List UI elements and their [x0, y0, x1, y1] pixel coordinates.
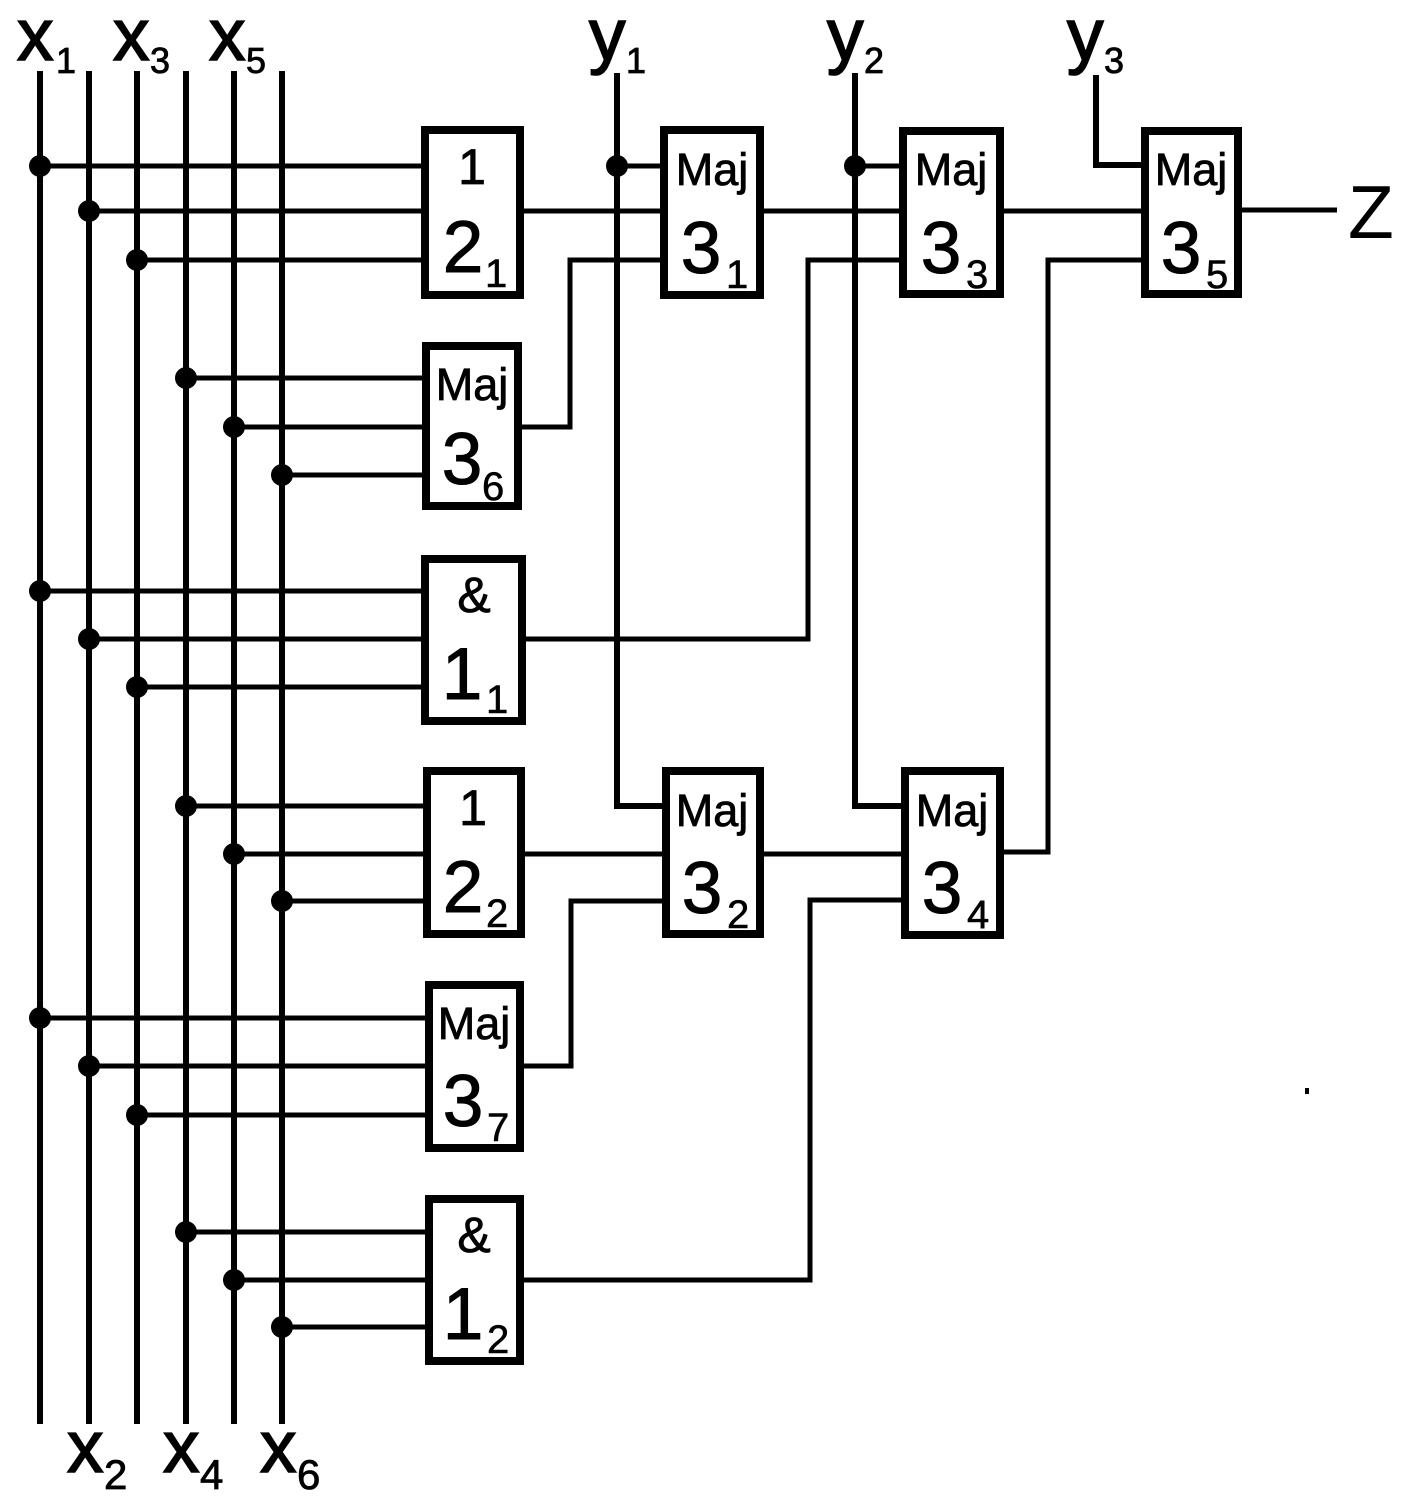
svg-text:3: 3	[443, 1061, 484, 1142]
net x3 vertical line	[134, 71, 140, 1424]
gate 3_4 label 3 with subscript 4	[922, 848, 990, 937]
svg-text:1: 1	[486, 678, 508, 722]
wire x5 to gate 3_6 input 2	[234, 425, 426, 430]
net y1 wire to gate 3_2 input 1	[617, 73, 664, 806]
net x1 vertical line	[37, 71, 43, 1424]
junction dot y1 / 3_1	[606, 155, 628, 177]
svg-text:1: 1	[56, 40, 76, 81]
net x5 vertical line	[231, 71, 237, 1424]
wire y2 to gate 3_3 input 1	[855, 164, 903, 169]
wire gate 3_1 output to gate 3_3 input 2	[764, 209, 903, 214]
svg-text:x: x	[17, 0, 54, 76]
svg-text:y: y	[1067, 0, 1104, 76]
svg-text:2: 2	[104, 1451, 127, 1498]
junction dot x1 / 2_1	[29, 155, 51, 177]
svg-text:3: 3	[682, 848, 723, 929]
wire y1 to gate 3_1 input 1	[617, 164, 664, 169]
gate 3_5 box	[1145, 131, 1238, 294]
junction dot x4 / 2_2	[175, 795, 197, 817]
svg-text:2: 2	[487, 1318, 509, 1362]
junction dot x2 / 1_1	[78, 628, 100, 650]
svg-text:x: x	[67, 1407, 104, 1488]
junction dot x5 / 3_6	[223, 416, 245, 438]
svg-text:Maj: Maj	[676, 144, 749, 195]
svg-text:Maj: Maj	[916, 785, 989, 836]
svg-text:5: 5	[246, 40, 266, 81]
junction dot x1 / 3_7	[29, 1007, 51, 1029]
svg-text:4: 4	[967, 893, 989, 937]
wire gate 2_2 output to gate 3_2 input 2	[525, 852, 664, 857]
wire x5 to gate 2_2 input 2	[234, 852, 427, 857]
wire gate 3_6 output to gate 3_1 input 3	[522, 260, 664, 427]
junction dot x6 / 3_6	[271, 464, 293, 486]
wire x1 to gate 3_7 input 1	[40, 1016, 429, 1021]
gate 3_7 box	[429, 985, 520, 1148]
svg-text:x: x	[209, 0, 246, 76]
svg-text:Maj: Maj	[436, 359, 509, 410]
svg-text:3: 3	[1161, 208, 1202, 289]
svg-text:Maj: Maj	[676, 785, 749, 836]
gate 3_3 box	[903, 131, 1000, 294]
gate 1_2 box	[429, 1199, 520, 1361]
gate 3_3 label 3 with subscript 3	[921, 208, 989, 297]
gate 3_2 box	[666, 771, 760, 934]
svg-text:7: 7	[487, 1106, 509, 1150]
svg-text:3: 3	[966, 253, 988, 297]
gate 2_1 box	[425, 130, 520, 295]
junction dot x2 / 2_1	[78, 200, 100, 222]
svg-text:3: 3	[442, 419, 483, 500]
svg-text:6: 6	[297, 1451, 320, 1498]
net y2 wire to gate 3_4 input 1	[855, 73, 903, 806]
wire x3 to gate 2_1 input 3	[137, 258, 425, 263]
svg-text:2: 2	[443, 847, 484, 928]
net x2 vertical line	[86, 71, 92, 1424]
wire x1 to gate 2_1 input 1	[40, 164, 425, 169]
wire x2 to gate 2_1 input 2	[89, 209, 425, 214]
gate 3_5 label 3 with subscript 5	[1161, 208, 1229, 297]
junction dot x4 / 1_2	[175, 1221, 197, 1243]
gate 3_1 box	[664, 130, 760, 295]
node label x5	[209, 0, 266, 81]
node label x4	[163, 1407, 223, 1498]
svg-text:3: 3	[922, 848, 963, 929]
wire gate 3_2 output to gate 3_4 input 2	[764, 852, 903, 857]
svg-text:&: &	[457, 1207, 490, 1263]
gate 3_6 label 3 with subscript 6	[442, 419, 505, 509]
svg-text:5: 5	[1206, 253, 1228, 297]
junction dot x3 / 1_1	[126, 676, 148, 698]
junction dot x5 / 1_2	[223, 1269, 245, 1291]
wire x4 to gate 1_2 input 1	[186, 1230, 429, 1235]
wire gate 1_1 output to gate 3_3 input 3	[524, 260, 903, 639]
svg-text:3: 3	[150, 40, 170, 81]
svg-text:y: y	[589, 0, 626, 76]
wire x6 to gate 3_6 input 3	[282, 473, 426, 478]
svg-text:1: 1	[459, 780, 487, 836]
wire gate 3_7 output to gate 3_2 input 3	[524, 901, 664, 1066]
svg-text:x: x	[260, 1407, 297, 1488]
wire gate 3_3 output to gate 3_5 input 2	[1004, 209, 1145, 214]
svg-text:2: 2	[864, 40, 884, 81]
junction dot x3 / 2_1	[126, 249, 148, 271]
wire x6 to gate 2_2 input 3	[282, 899, 427, 904]
svg-text:2: 2	[727, 893, 749, 937]
wire gate 3_5 output to Z	[1242, 208, 1337, 213]
gate 1_1 label 1 with subscript 1	[442, 634, 509, 722]
svg-text:Maj: Maj	[915, 144, 988, 195]
wire x4 to gate 3_6 input 1	[186, 376, 426, 381]
wire gate 1_2 output to gate 3_4 input 3	[524, 900, 903, 1280]
svg-text:4: 4	[200, 1451, 223, 1498]
node label x2	[67, 1407, 127, 1498]
gate 1_1 box	[425, 559, 522, 721]
junction dot x3 / 3_7	[126, 1104, 148, 1126]
gate 2_2 box	[427, 771, 521, 934]
wire x1 to gate 1_1 input 1	[40, 589, 425, 594]
gate 2_2 label 2 with subscript 2	[443, 847, 509, 936]
node label y1	[589, 0, 646, 81]
wire x4 to gate 2_2 input 1	[186, 804, 427, 809]
wire gate 3_4 output to gate 3_5 input 3	[1004, 260, 1145, 852]
junction dot y2 / 3_3	[844, 155, 866, 177]
wire x6 to gate 1_2 input 3	[282, 1325, 429, 1330]
gate 3_2 label 3 with subscript 2	[682, 848, 750, 937]
wire x3 to gate 1_1 input 3	[137, 685, 425, 690]
net y3 wire to gate 3_5 input 1	[1096, 75, 1145, 165]
net x4 vertical line	[183, 71, 189, 1424]
svg-text:x: x	[113, 0, 150, 76]
svg-text:6: 6	[482, 465, 504, 509]
svg-text:&: &	[457, 567, 490, 623]
net x6 vertical line	[279, 71, 285, 1424]
svg-text:3: 3	[921, 208, 962, 289]
junction dot x4 / 3_6	[175, 367, 197, 389]
gate 1_2 label 1 with subscript 2	[443, 1274, 510, 1362]
gate 3_7 label 3 with subscript 7	[443, 1061, 510, 1150]
wire x5 to gate 1_2 input 2	[234, 1278, 429, 1283]
wire gate 2_1 output to gate 3_1 input 2	[524, 209, 664, 214]
svg-text:1: 1	[726, 253, 748, 297]
svg-text:3: 3	[681, 208, 722, 289]
junction dot x5 / 2_2	[223, 843, 245, 865]
svg-text:2: 2	[486, 892, 508, 936]
svg-text:2: 2	[443, 207, 484, 288]
junction dot x6 / 2_2	[271, 890, 293, 912]
gate 3_1 label 3 with subscript 1	[681, 208, 749, 297]
svg-text:Maj: Maj	[438, 998, 511, 1049]
junction dot x6 / 1_2	[271, 1316, 293, 1338]
gate 2_1 label 2 with subscript 1	[443, 207, 508, 296]
wire x3 to gate 3_7 input 3	[137, 1113, 429, 1118]
node label y2	[827, 0, 884, 81]
svg-text:1: 1	[442, 634, 483, 715]
svg-text:x: x	[163, 1407, 200, 1488]
svg-text:3: 3	[1104, 40, 1124, 81]
wire x2 to gate 3_7 input 2	[89, 1064, 429, 1069]
node label x1	[17, 0, 76, 81]
svg-text:1: 1	[626, 40, 646, 81]
svg-text:1: 1	[443, 1274, 484, 1355]
junction dot x1 / 1_1	[29, 580, 51, 602]
junction dot x2 / 3_7	[78, 1055, 100, 1077]
svg-text:Z: Z	[1348, 170, 1394, 254]
wire x2 to gate 1_1 input 2	[89, 637, 425, 642]
node label x3	[113, 0, 170, 81]
gate 3_6 box	[426, 346, 518, 506]
svg-text:1: 1	[485, 252, 507, 296]
gate 3_4 box	[905, 771, 1000, 935]
node label x6	[260, 1407, 320, 1498]
svg-text:y: y	[827, 0, 864, 76]
node label y3	[1067, 0, 1124, 81]
scan speck artifact	[1305, 1088, 1309, 1094]
svg-text:Maj: Maj	[1155, 144, 1228, 195]
svg-text:1: 1	[458, 139, 486, 195]
